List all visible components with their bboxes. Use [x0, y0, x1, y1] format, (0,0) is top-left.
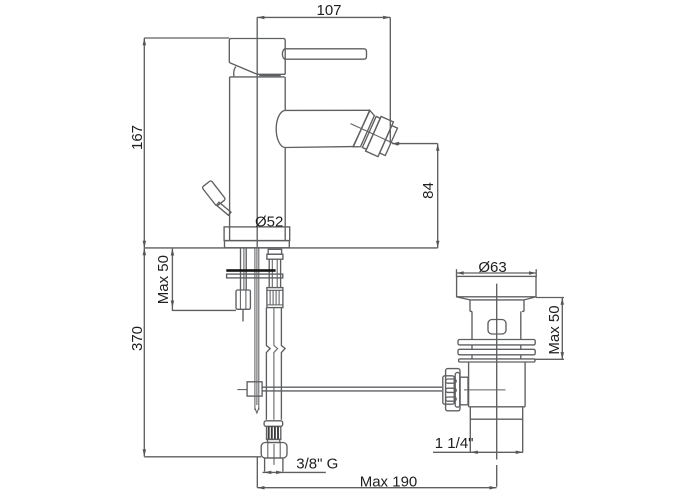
svg-text:Ø52: Ø52 [255, 214, 283, 231]
svg-text:1 1/4": 1 1/4" [435, 435, 474, 452]
svg-text:3/8" G: 3/8" G [296, 456, 338, 473]
svg-text:Max 50: Max 50 [546, 305, 563, 354]
svg-text:107: 107 [316, 2, 341, 19]
svg-text:84: 84 [420, 182, 437, 199]
svg-text:Max 50: Max 50 [155, 255, 172, 304]
svg-text:Ø63: Ø63 [478, 259, 506, 276]
svg-text:167: 167 [129, 125, 146, 150]
svg-text:Max 190: Max 190 [360, 473, 418, 490]
svg-text:370: 370 [129, 326, 146, 351]
